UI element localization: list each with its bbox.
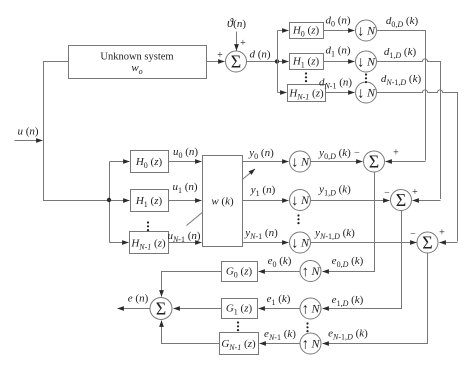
svg-text:+: + [393,148,399,159]
svg-text:d1,D (k): d1,D (k) [384,46,417,60]
svg-text:u (n): u (n) [17,126,38,138]
svg-text:Σ: Σ [396,190,406,210]
svg-text:↓ N: ↓ N [291,235,310,251]
svg-text:H0 (z): H0 (z) [135,156,163,170]
svg-text:↑ N: ↑ N [302,301,321,317]
svg-text:G1 (z): G1 (z) [226,303,253,317]
svg-text:ϑ(n): ϑ(n) [227,16,246,30]
svg-text:−: − [410,229,416,240]
svg-text:Σ: Σ [156,298,166,318]
svg-text:y1 (n): y1 (n) [250,184,276,198]
svg-text:Σ: Σ [231,51,241,71]
svg-text:d1 (n): d1 (n) [325,45,350,59]
svg-text:↓ N: ↓ N [357,23,376,39]
svg-text:+: + [412,187,418,198]
svg-text:↑ N: ↑ N [302,264,321,280]
svg-text:e1 (k): e1 (k) [267,293,291,307]
svg-text:u1 (n): u1 (n) [172,181,197,195]
svg-text:u0 (n): u0 (n) [173,146,198,160]
svg-text:↓ N: ↓ N [357,54,376,70]
svg-text:H1 (z): H1 (z) [135,195,163,209]
svg-text:eN-1 (k): eN-1 (k) [264,328,296,342]
svg-text:e1,D (k): e1,D (k) [332,294,364,308]
svg-text:dN-1 (n): dN-1 (n) [319,77,352,91]
svg-text:d (n): d (n) [249,49,270,61]
svg-text:e (n): e (n) [128,293,149,305]
svg-text:H0 (z): H0 (z) [292,25,320,39]
svg-text:−: − [384,188,390,199]
svg-text:uN-1 (n): uN-1 (n) [167,230,200,244]
svg-text:−: − [354,148,360,159]
svg-text:G0 (z): G0 (z) [226,266,253,280]
svg-text:w (k): w (k) [211,196,234,208]
svg-text:+: + [240,38,246,49]
svg-text:Σ: Σ [369,151,379,171]
svg-text:↓ N: ↓ N [357,85,376,101]
svg-text:↓ N: ↓ N [291,154,310,170]
svg-text:+: + [217,50,223,61]
svg-text:↓ N: ↓ N [291,193,310,209]
svg-text:Σ: Σ [422,232,432,252]
svg-text:Unknown system: Unknown system [100,52,173,63]
svg-text:+: + [439,228,445,239]
svg-text:d0,D (k): d0,D (k) [386,15,419,29]
svg-text:e0 (k): e0 (k) [268,255,292,269]
svg-text:↑ N: ↑ N [302,336,321,352]
svg-text:d0 (n): d0 (n) [325,15,350,29]
svg-text:e0,D (k): e0,D (k) [332,255,364,269]
svg-text:H1 (z): H1 (z) [292,56,320,70]
svg-text:y0 (n): y0 (n) [248,147,274,161]
